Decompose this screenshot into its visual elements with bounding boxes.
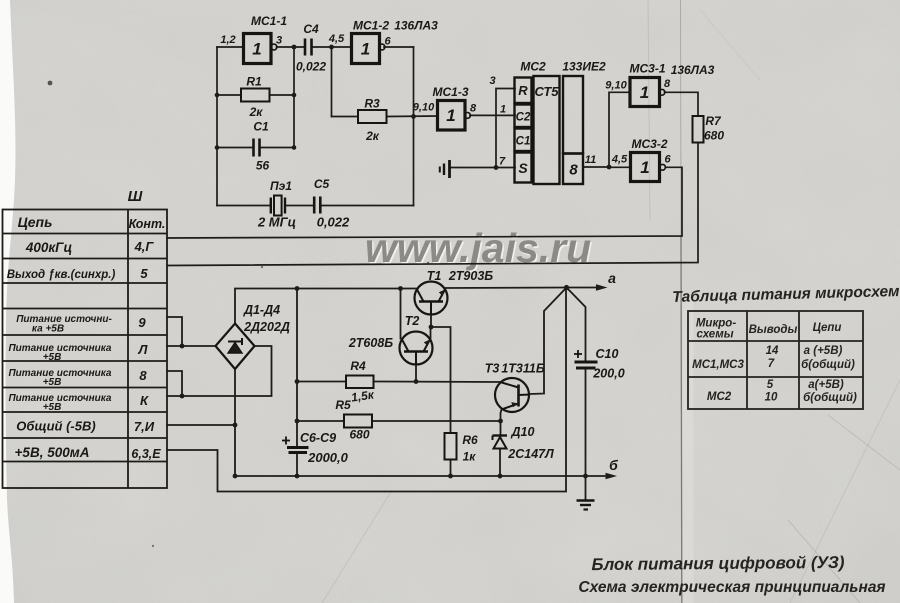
svg-text:б: б (609, 457, 618, 473)
wire: connector row 7,И common (167, 424, 235, 426)
wire: oscillator left vertical (216, 47, 218, 206)
wire: bridge top to +rail (235, 289, 418, 324)
svg-text:9: 9 (138, 315, 146, 330)
wire: T3 base sense line to node a (530, 288, 567, 395)
logic gate MC3-2 (631, 153, 666, 182)
svg-text:МС1,МС3: МС1,МС3 (692, 359, 744, 371)
svg-text:400кГц: 400кГц (25, 240, 73, 255)
wire: vertical joining R1/C1 to MC1-1 output (293, 47, 295, 148)
svg-text:Д10: Д10 (511, 425, 535, 439)
wire: branch up to MC3-1 input 9,10 (609, 92, 630, 167)
wire: T3 emitter drop to D10 (501, 410, 502, 435)
svg-text:Д1-Д4: Д1-Д4 (243, 303, 280, 317)
svg-text:4,5: 4,5 (611, 154, 628, 166)
logic gate MC3-1 (630, 78, 665, 107)
svg-text:СТ5: СТ5 (534, 84, 559, 99)
wire: connector row 9 jog (167, 317, 182, 346)
svg-text:МС1-2: МС1-2 (353, 19, 389, 33)
svg-text:б(общий): б(общий) (801, 359, 855, 371)
wire: T2 base drop to R4 (415, 365, 417, 382)
resistor R3 (358, 110, 387, 123)
wire: MC2 pin 11 output (583, 166, 609, 168)
junction dot at MC2 S node (494, 165, 499, 170)
svg-text:С2: С2 (516, 112, 531, 124)
chassis ground at MC2 S (440, 160, 450, 178)
wire: C10 to б rail (585, 369, 587, 477)
wire: MC1-2 output vertical down to R3 node and crystal line (413, 47, 415, 206)
svg-text:Л: Л (138, 342, 149, 357)
svg-text:+5В: +5В (43, 352, 62, 363)
svg-text:R4: R4 (350, 359, 366, 373)
resistor R5 (344, 415, 372, 428)
svg-text:5: 5 (140, 266, 148, 281)
wire: common bottom rail to б (235, 475, 611, 477)
svg-text:Пэ1: Пэ1 (270, 179, 292, 193)
svg-text:Общий (-5В): Общий (-5В) (16, 419, 95, 434)
svg-text:56: 56 (256, 159, 270, 173)
resistor R7 (693, 116, 704, 143)
svg-text:S: S (518, 160, 528, 176)
svg-text:Т3: Т3 (485, 362, 500, 376)
svg-text:3: 3 (489, 75, 495, 87)
svg-text:8: 8 (664, 78, 671, 90)
svg-text:0,022: 0,022 (296, 60, 326, 74)
svg-text:3: 3 (276, 35, 282, 47)
svg-text:8: 8 (569, 162, 578, 179)
counter MC2 133ИЕ2 (515, 76, 584, 184)
svg-text:МС2: МС2 (520, 60, 546, 74)
svg-text:7: 7 (768, 358, 775, 370)
wire: R3 left vertical from node 4,5 (331, 47, 333, 117)
wire: MC3-2 output pin 6 long run to connector row 4,Г (167, 167, 682, 238)
logic gate MC1-1 (244, 34, 277, 64)
svg-text:1: 1 (446, 106, 455, 125)
base lead T1 inside circle (430, 302, 432, 315)
wire: C1 branch (217, 147, 252, 149)
svg-text:9,10: 9,10 (605, 80, 627, 92)
svg-text:+5В: +5В (43, 402, 62, 413)
svg-text:схемы: схемы (696, 329, 733, 341)
svg-text:С1: С1 (516, 136, 531, 148)
svg-text:Цепи: Цепи (813, 322, 842, 334)
svg-text:1: 1 (500, 104, 506, 116)
svg-text:Конт.: Конт. (129, 217, 166, 231)
svg-text:680: 680 (349, 428, 369, 442)
wire: connector row 6,3,Е +5V return (167, 288, 566, 492)
svg-text:133ИЕ2: 133ИЕ2 (562, 60, 606, 74)
resistor R1 (241, 89, 270, 102)
wire: ground to MC2 S input (pin 7) (451, 167, 516, 169)
svg-text:R7: R7 (705, 114, 722, 128)
wire: R7 down and long run to connector row 5 (167, 143, 698, 266)
svg-text:14: 14 (766, 345, 779, 357)
svg-text:1к: 1к (463, 450, 477, 464)
svg-text:R: R (518, 83, 528, 98)
svg-text:+5В, 500мА: +5В, 500мА (15, 445, 90, 460)
svg-text:4,5: 4,5 (328, 33, 345, 45)
svg-text:ка +5В: ка +5В (32, 324, 64, 335)
svg-text:8: 8 (470, 103, 477, 115)
wire: connector row Л to bridge left (167, 345, 216, 347)
svg-text:К: К (140, 393, 149, 408)
capacitor C10 (575, 362, 598, 368)
junction dot pin 11 branch (607, 165, 612, 170)
svg-text:Блок питания цифровой (УЗ): Блок питания цифровой (УЗ) (591, 553, 845, 574)
svg-text:С5: С5 (314, 177, 330, 191)
diode bridge Д1-Д4 2Д202Д (216, 324, 255, 370)
svg-text:Схема электрическая принци: Схема электрическая принципиальная (578, 579, 885, 596)
svg-text:R3: R3 (364, 97, 380, 111)
wire: MC2 R-S common vertical (pin 3) (496, 89, 515, 168)
wire: D10 anode to bottom rail (499, 449, 501, 477)
power table of microcircuits (688, 311, 863, 409)
svg-text:10: 10 (765, 392, 778, 404)
wire: MC1-1 input pins 1,2 (217, 46, 244, 48)
wire: T1 base to T2 emitter node (430, 315, 432, 328)
svg-text:+5В: +5В (43, 377, 62, 388)
wire: T1 emitter rail to node a (445, 287, 567, 290)
svg-text:1Т311Б: 1Т311Б (501, 362, 545, 376)
wire: connector row 8 jog (167, 371, 182, 396)
svg-text:136ЛА3: 136ЛА3 (671, 63, 715, 77)
logic gate MC1-2 (352, 34, 385, 64)
wire: branch to MC3-2 input 4,5 (609, 166, 631, 168)
wire: R6 to bottom rail (450, 460, 452, 477)
polarity + (C10) (574, 350, 582, 358)
output arrow б (606, 473, 618, 480)
svg-text:МС1-1: МС1-1 (251, 14, 287, 28)
earth ground symbol (577, 501, 595, 510)
capacitor C5 (314, 197, 320, 214)
svg-text:С4: С4 (303, 22, 319, 36)
junction dots power section (180, 285, 588, 479)
svg-text:МС3-1: МС3-1 (629, 62, 665, 76)
svg-text:1: 1 (361, 40, 370, 59)
svg-text:1: 1 (640, 83, 649, 102)
svg-text:Т2: Т2 (405, 314, 420, 328)
wire: MC1-1 output to C4 (277, 46, 305, 48)
svg-text:Выводы: Выводы (749, 324, 798, 336)
svg-text:МС1-3: МС1-3 (432, 85, 468, 99)
svg-text:2000,0: 2000,0 (307, 450, 349, 465)
svg-text:Ш: Ш (128, 188, 143, 205)
svg-text:2к: 2к (365, 129, 380, 143)
svg-text:Цепь: Цепь (18, 214, 53, 230)
wire: T2 emitter riser (430, 327, 432, 340)
svg-text:2С147Л: 2С147Л (507, 447, 554, 461)
svg-text:2Д202Д: 2Д202Д (243, 320, 290, 334)
svg-text:7,И: 7,И (134, 419, 155, 434)
svg-text:R1: R1 (246, 75, 262, 89)
svg-text:7: 7 (499, 156, 506, 168)
svg-text:Выход ƒкв.(синхр.): Выход ƒкв.(синхр.) (7, 269, 116, 281)
svg-text:МС2: МС2 (707, 391, 732, 403)
svg-text:2Т903Б: 2Т903Б (448, 269, 493, 283)
svg-text:6: 6 (664, 154, 671, 166)
resistor R4 (346, 376, 374, 389)
connector table Ш (3, 210, 168, 489)
quartz crystal Пэ1 (271, 196, 285, 216)
svg-text:Т1: Т1 (427, 269, 442, 283)
watermark www.jais.ru (365, 225, 593, 273)
junction dots oscillator (215, 45, 416, 150)
svg-text:2к: 2к (249, 105, 264, 119)
svg-text:1,2: 1,2 (220, 34, 235, 46)
svg-text:9,10: 9,10 (413, 102, 435, 114)
wire: connector row К to bridge right via detour (167, 346, 272, 396)
wire: T2 collector drop (400, 289, 402, 339)
svg-text:680: 680 (704, 129, 724, 143)
svg-text:2 МГц: 2 МГц (257, 215, 296, 230)
svg-text:С1: С1 (253, 120, 269, 134)
svg-text:11: 11 (585, 154, 596, 166)
wire: б rail to earth ground (585, 476, 587, 500)
wire: MC1-3 output pin 8 to MC2 pin 1 (470, 114, 515, 116)
svg-text:б(общий): б(общий) (803, 392, 857, 404)
svg-text:R6: R6 (462, 433, 478, 447)
svg-text:МС3-2: МС3-2 (631, 137, 667, 151)
logic gate MC1-3 (438, 101, 471, 131)
svg-text:а: а (608, 270, 616, 286)
resistor R6 (445, 433, 457, 460)
capacitor С6-С9 (287, 448, 309, 453)
svg-text:5: 5 (767, 379, 774, 391)
svg-text:6: 6 (384, 36, 391, 48)
wire: raw supply left vertical (296, 289, 298, 448)
capacitor C4 (305, 39, 312, 56)
svg-text:R5: R5 (335, 398, 351, 412)
svg-text:6,3,Е: 6,3,Е (131, 447, 161, 461)
svg-text:С10: С10 (596, 347, 619, 361)
wire: R1 branch (217, 94, 241, 96)
wire: bridge bottom down (234, 369, 236, 476)
transistor T3 1Т311Б (495, 378, 530, 412)
capacitor C1 (254, 139, 260, 157)
transistor T1 2Т903Б (415, 282, 448, 315)
wire: node a to C10 branch (567, 288, 586, 361)
svg-text:2Т608Б: 2Т608Б (348, 336, 393, 350)
wire: crystal bottom line (217, 205, 270, 207)
wire: C4 to MC1-2 input pins 4,5 (313, 46, 352, 48)
svg-text:136ЛА3: 136ЛА3 (394, 19, 438, 33)
svg-text:1: 1 (252, 40, 261, 59)
wire: R4 line (297, 381, 346, 383)
wire: R3 output to MC1-3 input 9,10 (387, 115, 438, 118)
transistor T2 2Т608Б (400, 332, 433, 365)
svg-text:С6-С9: С6-С9 (300, 431, 336, 445)
zener diode Д10 2С147Л (493, 436, 508, 449)
svg-text:0,022: 0,022 (317, 215, 350, 230)
wire: node to R6 vertical (431, 327, 451, 433)
svg-text:200,0: 200,0 (592, 367, 624, 381)
svg-text:1: 1 (640, 158, 649, 177)
svg-text:а(+5В): а(+5В) (808, 379, 844, 391)
svg-text:а (+5В): а (+5В) (804, 345, 843, 357)
wire: MC3-1 output pin 8 to R7 (665, 92, 699, 116)
wire: R5 line (297, 420, 344, 422)
svg-text:8: 8 (139, 368, 147, 383)
polarity + (С6-С9) (282, 437, 290, 445)
output arrow а (567, 287, 601, 289)
svg-text:4,Г: 4,Г (134, 239, 155, 254)
svg-text:Питание источни-: Питание источни- (16, 314, 112, 325)
wire: MC1-2 output pin 6 (384, 46, 414, 48)
